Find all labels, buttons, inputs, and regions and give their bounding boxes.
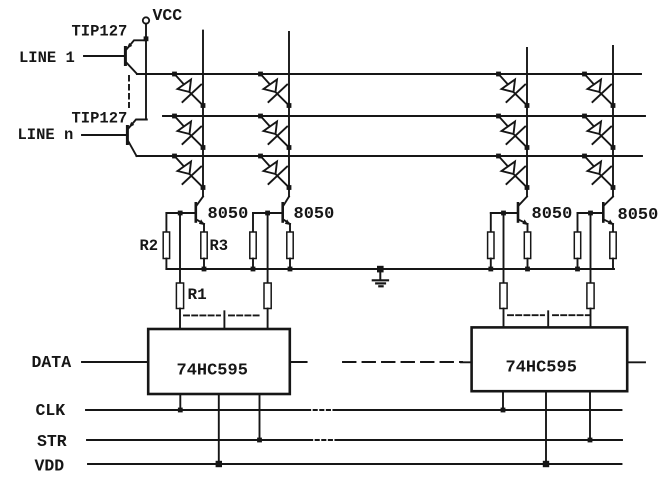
wire: R1d to U2 pin (590, 309, 592, 328)
wire: Q4 base feed to R1b (267, 215, 269, 283)
LED D11 (row1,col1) (172, 72, 205, 108)
resistor (Q6 base series) (587, 283, 594, 309)
resistor (Q4 base series) (264, 283, 271, 309)
LED D22 (row2,col2) (258, 114, 291, 150)
wire: CLK line (86, 409, 622, 411)
LED D24 (row2,col4) (582, 114, 615, 150)
svg-text:74HC595: 74HC595 (506, 359, 577, 378)
transistor 8050 Q3 (column 1 sink) (166, 197, 204, 226)
wire: VCC vertical rail (145, 24, 147, 120)
LED D13 (row1,col3) (496, 72, 529, 108)
svg-text:TIP127: TIP127 (72, 110, 128, 128)
svg-text:LINE 1: LINE 1 (19, 49, 75, 67)
LED D31 (row3,col1) (172, 154, 205, 190)
wire: U1 serial out stub (290, 361, 307, 363)
resistor R2 (Q3 base pulldown) (163, 213, 169, 269)
wire: row 3 (137, 155, 643, 157)
svg-text:R1: R1 (188, 286, 207, 304)
LED D23 (row2,col3) (496, 114, 529, 150)
wire: U2 VDD pin (545, 391, 547, 464)
junction dot: U1 VDD (216, 461, 222, 467)
junction dot: Q1 emitter to VCC rail (144, 36, 149, 41)
junction dot: Q6 base feed (588, 211, 593, 216)
wire: ground rail (166, 268, 614, 270)
junction dot: U1 STR (257, 438, 262, 443)
resistor (Q5 emitter) (524, 224, 530, 269)
svg-text:74HC595: 74HC595 (177, 362, 248, 381)
resistor (Q5 base pulldown) (488, 213, 494, 269)
junction dot: Q4 base feed (265, 211, 270, 216)
svg-text:R3: R3 (210, 237, 229, 255)
LED D33 (row3,col3) (496, 154, 529, 190)
U1 more-outputs dashed ellipsis (184, 311, 260, 329)
wire: U2 STR pin (589, 391, 591, 440)
wire: U2 CLK pin (502, 391, 504, 410)
junction dot: Q4 pulldown to rail (251, 267, 256, 272)
junction dot: Q5 base feed (501, 211, 506, 216)
svg-text:VCC: VCC (153, 6, 183, 25)
svg-text:R2: R2 (140, 237, 159, 255)
junction dot: Q5 pulldown to rail (488, 267, 493, 272)
resistor R1 (Q3 base series) (176, 283, 183, 309)
junction dot: U2 STR (588, 438, 593, 443)
resistor R3 (Q3 emitter) (201, 224, 207, 269)
transistor TIP127 Q2 (LINE n driver) (127, 120, 146, 157)
svg-text:8050: 8050 (208, 205, 249, 224)
junction dot: Q3 base feed (178, 211, 183, 216)
resistor (Q6 emitter) (610, 224, 616, 269)
svg-text:STR: STR (37, 432, 67, 451)
junction dot: U2 CLK (501, 408, 506, 413)
junction dot: Q4 emitter resistor to rail (288, 267, 293, 272)
junction dot: Q5 emitter resistor to rail (525, 267, 530, 272)
wire: U1 CLK pin (179, 394, 181, 410)
wire: row 1 (137, 73, 641, 75)
resistor (Q4 emitter) (287, 224, 293, 269)
wire: DATA lead into U1 (82, 361, 148, 363)
ground (373, 266, 388, 287)
svg-text:8050: 8050 (532, 205, 573, 224)
U2 more-outputs dashed ellipsis (508, 311, 589, 327)
transistor TIP127 Q1 (LINE 1 driver) (125, 40, 146, 74)
junction dot: Q6 pulldown to rail (575, 267, 580, 272)
wire: row 2 (163, 115, 645, 117)
wire: VDD line (88, 463, 622, 465)
wire: column 2 (288, 32, 290, 196)
wire: column 1 (202, 31, 204, 197)
wire: R1c to U2 pin (503, 309, 505, 328)
dashed ellipsis between line drivers (128, 76, 130, 107)
op: U2 74HC595 box (472, 327, 628, 391)
LED D14 (row1,col4) (582, 72, 615, 108)
wire: cascade dashes U1 to U2 (343, 361, 462, 363)
VCC terminal circle (143, 17, 149, 23)
LED D34 (row3,col4) (582, 154, 615, 190)
junction dot: U2 VDD (543, 461, 549, 467)
wire: Q6 base feed to R1d (590, 215, 592, 283)
wire: column 4 (612, 46, 614, 196)
svg-text:8050: 8050 (618, 206, 659, 225)
wire: U2 serial in stub (461, 361, 472, 363)
LED D21 (row2,col1) (172, 114, 205, 150)
svg-text:8050: 8050 (294, 205, 335, 224)
svg-text:VDD: VDD (35, 457, 65, 476)
wire: U1 STR pin (259, 394, 261, 440)
wire: Q3 base feed to R1 (179, 215, 181, 283)
wire: R1 to U1 pin (179, 309, 181, 330)
wire: LINE n base lead (82, 134, 126, 136)
wire: U1 VDD pin (218, 394, 220, 464)
wire: LINE 1 base lead (84, 55, 124, 57)
transistor 8050 Q4 (column 2 sink) (253, 197, 291, 226)
wire: R1b to U1 pin (267, 309, 269, 330)
wire: column 3 (526, 48, 528, 196)
junction dot: U1 CLK (178, 408, 183, 413)
wire: STR line (87, 439, 622, 441)
svg-text:DATA: DATA (32, 353, 72, 372)
resistor (Q5 base series) (500, 283, 507, 309)
wire: U2 serial out stub (627, 361, 645, 363)
wire: Q5 base feed to R1c (503, 215, 505, 283)
svg-text:LINE n: LINE n (18, 126, 74, 144)
resistor (Q6 base pulldown) (574, 213, 580, 269)
resistor (Q4 base pulldown) (250, 213, 256, 269)
transistor 8050 Q6 (column 4 sink) (578, 197, 614, 226)
junction dot: R3 to rail (202, 267, 207, 272)
LED D12 (row1,col2) (258, 72, 291, 108)
svg-text:TIP127: TIP127 (72, 23, 128, 41)
svg-text:CLK: CLK (36, 401, 66, 420)
LED D32 (row3,col2) (258, 154, 291, 190)
transistor 8050 Q5 (column 3 sink) (491, 197, 528, 226)
op: U1 74HC595 box (148, 329, 290, 394)
